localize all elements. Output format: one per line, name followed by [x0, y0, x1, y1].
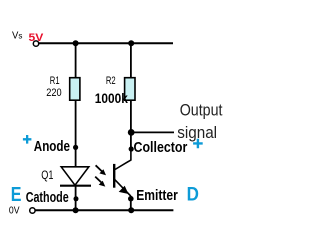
svg-text:5V: 5V — [29, 32, 45, 44]
svg-text:Output: Output — [180, 101, 223, 119]
wire LED cathode to bottom rail — [75, 186, 77, 210]
svg-text:Anode: Anode — [34, 139, 70, 155]
node emitter junction dot — [128, 196, 134, 202]
node collector junction dot — [129, 146, 134, 151]
svg-text:R1: R1 — [50, 75, 60, 87]
light arrow 2 from LED to phototransistor — [95, 177, 105, 187]
resistor R2 — [125, 78, 135, 101]
junction output tap dot — [128, 129, 135, 136]
wire bottom 0V rail — [35, 209, 173, 211]
node anode junction dot — [73, 145, 78, 150]
LED cathode bar — [60, 185, 91, 187]
resistor R1 — [70, 78, 80, 101]
junction bottom rail / LED branch — [73, 207, 79, 213]
wire R1 bottom lead to LED anode — [75, 100, 77, 167]
light arrow 1 from LED to phototransistor — [96, 165, 106, 175]
junction top rail / R2 — [128, 40, 134, 46]
svg-text:D: D — [187, 184, 199, 205]
node Vs terminal (open circle) — [33, 41, 38, 46]
wire R2 top lead — [130, 43, 132, 78]
wire R2 bottom lead to collector — [130, 100, 132, 149]
junction top rail / R1 — [73, 40, 79, 46]
plus sign at anode (cyan) — [23, 135, 32, 144]
svg-text:Vs: Vs — [12, 31, 22, 42]
svg-text:Collector: Collector — [134, 140, 188, 156]
LED D1 triangle (anode) — [61, 167, 89, 185]
svg-text:R2: R2 — [106, 75, 116, 87]
svg-text:Cathode: Cathode — [26, 190, 69, 206]
svg-text:Emitter: Emitter — [136, 188, 178, 204]
emitter arrowhead — [119, 186, 129, 194]
svg-text:1000k: 1000k — [95, 91, 128, 106]
wire R1 top lead — [75, 43, 77, 78]
svg-text:E: E — [11, 184, 22, 206]
svg-text:Q1: Q1 — [41, 170, 53, 182]
wire emitter to bottom rail — [130, 196, 132, 210]
node cathode junction dot — [74, 196, 79, 201]
junction bottom rail / emitter branch — [128, 207, 134, 213]
transistor emitter lead — [115, 179, 131, 196]
wire output signal — [131, 131, 174, 133]
svg-text:220: 220 — [46, 87, 61, 99]
plus sign at collector (cyan) — [193, 139, 203, 149]
wire top supply rail — [39, 42, 173, 44]
svg-text:0V: 0V — [9, 206, 20, 217]
node 0V terminal (open circle) — [30, 208, 35, 213]
transistor collector lead — [115, 149, 131, 170]
transistor Q1 base bar — [113, 164, 115, 188]
